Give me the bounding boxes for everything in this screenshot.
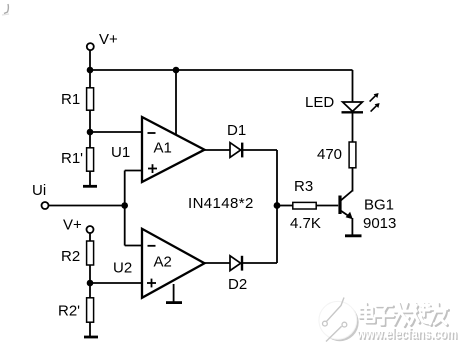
svg-text:R2': R2' <box>58 303 80 320</box>
svg-text:A2: A2 <box>154 254 172 271</box>
svg-text:V+: V+ <box>63 217 82 234</box>
wire A1 V+ supply pin <box>175 70 177 136</box>
resistor R2' <box>87 298 94 322</box>
svg-text:IN4148*2: IN4148*2 <box>188 195 254 212</box>
LED <box>342 102 364 112</box>
svg-text:R1: R1 <box>61 91 80 108</box>
svg-text:D2: D2 <box>228 276 247 293</box>
watermark text 电子发烧友 (embossed) <box>359 303 448 327</box>
wire V+ to R2 <box>89 233 91 241</box>
svg-text:470: 470 <box>317 146 342 163</box>
svg-text:9013: 9013 <box>363 215 396 232</box>
junction input node <box>121 202 128 209</box>
watermark url text www.elecfans.com (embossed) <box>356 326 458 344</box>
resistor R1 <box>87 88 94 110</box>
terminal V+ (top) <box>87 43 94 50</box>
wire R2 to R2' <box>89 265 91 298</box>
wire A2 ground pin <box>173 284 175 302</box>
svg-text:LED: LED <box>305 94 334 111</box>
wire LED to 470 <box>352 114 354 143</box>
svg-text:www.elecfans.com: www.elecfans.com <box>356 326 457 343</box>
wire D1 to summing node <box>242 149 277 151</box>
wire Ui to input node <box>48 205 125 207</box>
wire to A1 non-inverting input <box>125 170 143 172</box>
svg-text:V+: V+ <box>99 31 118 48</box>
wire D2 to summing node <box>242 262 277 264</box>
ground (below R2') <box>84 336 98 339</box>
wire top V+ rail <box>90 69 353 71</box>
svg-text:A1: A1 <box>154 140 172 157</box>
wire R1' to ground <box>89 171 91 186</box>
svg-text:R3: R3 <box>294 178 313 195</box>
junction rail/A1 supply <box>173 67 180 74</box>
resistor R2 <box>87 241 94 265</box>
diode D2 <box>230 256 242 271</box>
svg-text:R1': R1' <box>61 150 83 167</box>
terminal Ui <box>42 202 49 209</box>
resistor R3 <box>293 202 316 209</box>
svg-text:U2: U2 <box>113 260 132 277</box>
op-amp A2 <box>142 229 205 298</box>
wire summing node to R3 <box>277 205 293 207</box>
wire BG1 emitter to ground <box>351 218 353 236</box>
stray mark top-left <box>4 4 8 14</box>
junction rail/R1 <box>87 67 94 74</box>
wire R3 to BG1 base <box>316 205 338 207</box>
LED arrow 1 <box>370 93 379 102</box>
LED arrow 2 <box>371 103 380 112</box>
wire input node vertical <box>124 171 126 246</box>
wire BG1 collector to 470 <box>352 168 354 192</box>
junction R2/R2' node to A2 non-inverting input <box>87 280 94 287</box>
op-amp A1 <box>142 117 205 182</box>
svg-text:4.7K: 4.7K <box>290 215 321 232</box>
wire rail down to LED <box>352 70 354 103</box>
wire to A2 inverting input <box>125 245 143 247</box>
wire summing node vertical <box>276 150 278 263</box>
svg-text:D1: D1 <box>227 122 246 139</box>
wire A1 output to D1 <box>204 149 230 151</box>
ground (below A2) <box>166 301 182 304</box>
svg-text:U1: U1 <box>111 144 130 161</box>
junction R1/R1' node to A1 inverting input <box>87 129 94 136</box>
junction summing node <box>274 202 281 209</box>
wire A2 output to D2 <box>204 262 230 264</box>
resistor R1' <box>87 148 94 171</box>
wire R1 to R1' <box>89 110 91 148</box>
ground (below BG1 emitter) <box>345 234 362 237</box>
wire V+ terminal to rail <box>89 50 91 70</box>
resistor 470 <box>349 142 356 168</box>
transistor BG1 <box>340 191 353 220</box>
wire R2' to ground <box>89 322 91 337</box>
svg-text:BG1: BG1 <box>364 197 394 214</box>
diode D1 <box>230 143 242 158</box>
terminal V+ (middle) <box>87 226 94 233</box>
ground (below R1') <box>83 185 97 188</box>
wire node to A1 inverting input <box>90 131 143 133</box>
wire rail to R1 <box>89 70 91 88</box>
wire node to A2 non-inverting input <box>90 282 143 284</box>
svg-text:Ui: Ui <box>32 182 46 199</box>
svg-text:R2: R2 <box>61 248 80 265</box>
watermark logo (elecfans disc) <box>319 298 359 342</box>
